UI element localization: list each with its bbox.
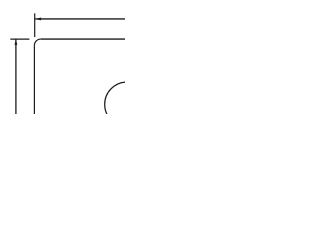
fillet arc at part corner [34,39,41,45]
background [0,0,125,114]
hole circle (partially visible) [105,82,150,127]
wire horizontal dimension line [35,18,125,20]
arrowhead up-pointing on vertical dimension [15,39,18,45]
vertical dimension line [15,39,17,114]
arrowhead left-pointing on horizontal dimension [35,18,41,21]
vertical extension line at part left edge [34,13,36,37]
part left edge [33,45,35,114]
part top edge [41,38,125,40]
horizontal extension line at part top edge [10,38,29,40]
